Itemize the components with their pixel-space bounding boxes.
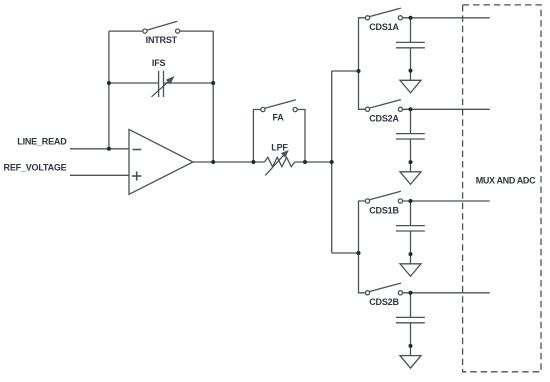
node: sub-bus A tap [357, 69, 361, 73]
switch CDS2A [365, 100, 402, 112]
op-amp minus pin [133, 149, 142, 151]
wire CDS2A cap to ground [410, 139, 412, 172]
switch CDS1B [365, 191, 402, 203]
wire feedback right vertical [212, 31, 214, 162]
wire CDS1A cap drop [410, 18, 412, 43]
svg-text:CDS1A: CDS1A [369, 22, 399, 32]
wire main bus vertical [331, 71, 333, 253]
wire CDS2B output [403, 292, 490, 294]
svg-text:IFS: IFS [152, 58, 166, 68]
op-amp plus pin [132, 171, 142, 180]
svg-text:CDS2B: CDS2B [369, 297, 399, 307]
node: CDS1B ground [409, 252, 413, 256]
switch CDS1A [365, 8, 402, 20]
wire CDS2A cap drop [410, 109, 412, 134]
wire op-amp output [193, 161, 265, 163]
capacitor CDS1A [396, 42, 425, 47]
node: main bus tap [330, 160, 334, 164]
node: feedback cap left [107, 81, 111, 85]
node: CDS1B output [409, 199, 413, 203]
node: CDS2A output [409, 107, 413, 111]
wire CDS1A cap to ground [410, 48, 412, 81]
node: LPF right [303, 160, 307, 164]
node: CDS1A output [409, 16, 413, 20]
op-amp U1 [129, 129, 193, 194]
ground CDS2A [400, 172, 421, 185]
svg-text:LINE_READ: LINE_READ [17, 137, 67, 147]
wire sub-bus A [359, 18, 366, 110]
wire FA branch right vertical [297, 110, 305, 163]
wire CDS1B cap drop [410, 201, 412, 226]
node: feedback cap right [211, 81, 215, 85]
svg-text:INTRST: INTRST [146, 35, 178, 45]
svg-text:REF_VOLTAGE: REF_VOLTAGE [4, 163, 67, 173]
resistor LPF (variable) [265, 150, 295, 175]
node: feedback/inverting input junction [107, 147, 111, 151]
ground CDS1A [400, 80, 421, 93]
MUX AND ADC dashed box [463, 5, 541, 372]
wire CDS2B cap drop [410, 293, 412, 318]
wire REF_VOLTAGE input [70, 174, 129, 176]
capacitor CDS2A [396, 134, 425, 139]
wire CDS1A output [403, 17, 490, 19]
wire LINE_READ input [70, 148, 129, 150]
wire feedback left vertical [108, 31, 110, 149]
wire sub-bus B [359, 201, 366, 293]
svg-text:MUX AND ADC: MUX AND ADC [476, 176, 536, 186]
wire bus stub bottom [332, 252, 359, 254]
node: op-amp output [211, 160, 215, 164]
ground CDS2B [400, 356, 421, 369]
node: CDS1A ground [409, 69, 413, 73]
switch FA [261, 100, 298, 112]
wire CDS2A output [403, 108, 490, 110]
svg-text:CDS2A: CDS2A [369, 113, 399, 123]
capacitor CDS2B [396, 317, 425, 322]
svg-text:CDS1B: CDS1B [369, 205, 399, 215]
node: LPF left [251, 160, 255, 164]
node: CDS2B output [409, 291, 413, 295]
wire bus stub top [332, 70, 359, 72]
node: CDS2A ground [409, 160, 413, 164]
node: sub-bus B tap [357, 251, 361, 255]
ground CDS1B [400, 264, 421, 277]
wire LPF to bus [295, 161, 332, 163]
wire CDS2B cap to ground [410, 323, 412, 356]
wire feedback cap row right [164, 82, 214, 84]
wire feedback cap row left [109, 82, 159, 84]
node: CDS2B ground [409, 344, 413, 348]
wire CDS1B output [403, 200, 490, 202]
wire feedback top left segment [109, 30, 143, 32]
wire CDS1B cap to ground [410, 231, 412, 264]
switch INTRST [143, 21, 180, 33]
capacitor CDS1B [396, 226, 425, 231]
svg-text:LPF: LPF [271, 143, 288, 153]
switch CDS2B [365, 283, 402, 295]
wire FA branch left vertical [253, 110, 260, 163]
wire feedback top right segment [180, 30, 214, 32]
svg-text:FA: FA [272, 113, 284, 123]
capacitor IFS (variable) [152, 71, 175, 97]
